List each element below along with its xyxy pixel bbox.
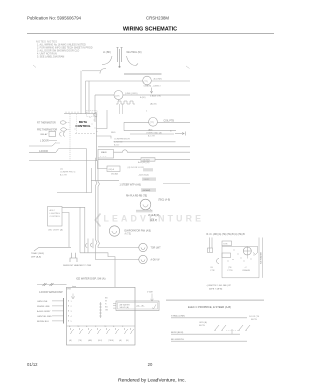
svg-text:(A): (A)	[119, 339, 122, 342]
control board top edge	[64, 113, 97, 115]
svg-text:OVERLOAD (A): OVERLOAD (A)	[146, 131, 162, 134]
evaporator fan motor	[109, 226, 119, 236]
svg-text:TOR LWT: TOR LWT	[151, 248, 162, 250]
aux motor circle 2	[139, 255, 147, 263]
left drop wire corner	[57, 168, 92, 193]
water valve sub-box inner	[118, 303, 158, 310]
svg-text:RT THERMISTOR: RT THERMISTOR	[37, 123, 56, 125]
wire left low 2	[29, 161, 107, 169]
svg-text:A-B (W) (B): A-B (W) (B)	[138, 161, 150, 164]
svg-text:A CO: A CO	[114, 143, 120, 146]
connector bar	[63, 298, 65, 324]
water valve sub-box outer	[116, 301, 159, 311]
svg-text:(W) A: (W) A	[109, 168, 115, 171]
svg-text:(A) (B): (A) (B)	[150, 103, 157, 106]
header rule	[27, 33, 274, 35]
svg-text:-(A)- -(B)-: -(A)- -(B)-	[136, 304, 145, 307]
ice maker right bracket	[258, 238, 260, 278]
harness connector rows	[37, 301, 52, 323]
connector circle on neutral bus	[114, 91, 123, 100]
internal terminal strip	[99, 302, 101, 318]
svg-text:CTR: CTR	[210, 270, 215, 272]
arrow down from bus L1	[150, 88, 152, 94]
svg-text:RELAY: RELAY	[41, 133, 49, 136]
svg-text:A (TE): A (TE)	[125, 233, 132, 236]
svg-text:DEF (A-B): DEF (A-B)	[31, 255, 41, 258]
svg-text:(B): (B)	[126, 340, 129, 342]
grey part badge 2	[142, 177, 156, 180]
svg-text:/ (MAIN) - (LINE) /: / (MAIN) - (LINE) /	[143, 85, 161, 88]
defrost connector bracket	[70, 253, 77, 262]
svg-text:STEAL (LINE): STEAL (LINE)	[171, 314, 185, 317]
svg-text:ICE MAKER: ICE MAKER	[259, 252, 262, 264]
svg-text:(LF): (LF)	[115, 95, 119, 97]
svg-text:5. SEE LABEL DIAGRAM: 5. SEE LABEL DIAGRAM	[37, 56, 64, 59]
svg-text:COMPR PRO 4: COMPR PRO 4	[60, 172, 76, 174]
power cord lower left hook	[100, 69, 106, 74]
svg-text:BK/TE: BK/TE	[199, 325, 206, 327]
switch diagonal	[56, 149, 59, 153]
wire from lighting box upper	[62, 207, 85, 253]
svg-text:GRN/YEL RED: GRN/YEL RED	[37, 316, 52, 318]
tick mark right	[186, 66, 190, 69]
svg-text:AB WATER: AB WATER	[120, 303, 131, 306]
svg-text:RED: RED	[111, 132, 116, 134]
switch top labels	[69, 325, 124, 328]
defrost drop wires with curls	[88, 239, 93, 253]
compressor run wire	[124, 121, 190, 123]
svg-text:BK/W (BLW): BK/W (BLW)	[171, 332, 184, 334]
svg-text:GRN: GRN	[67, 288, 72, 290]
svg-text:CRAMB: CRAMB	[242, 269, 250, 272]
control pin dots	[75, 117, 98, 134]
svg-text:A (LINE): A (LINE)	[154, 77, 163, 80]
triac wire	[34, 247, 71, 251]
module left edge	[221, 246, 223, 278]
noise filter element square wave	[116, 101, 135, 104]
svg-text:(ADAM): (ADAM)	[143, 189, 151, 192]
svg-text:BK/TE: BK/TE	[251, 319, 258, 321]
svg-text:(ADAM): (ADAM)	[143, 159, 151, 162]
control board right edge	[96, 114, 98, 161]
coil drop wire	[118, 100, 120, 102]
svg-text:COMPRESSOR: COMPRESSOR	[114, 138, 130, 140]
wire row 141	[114, 141, 176, 143]
svg-text:01/12: 01/12	[27, 362, 38, 367]
drop wire x80	[79, 207, 81, 253]
svg-text:(TE: (TE	[228, 267, 232, 269]
svg-text:LIGHTING: LIGHTING	[50, 213, 61, 215]
control board inner dashed edge	[76, 114, 78, 133]
lighting control box	[48, 207, 63, 227]
svg-text:~C: ~C	[244, 267, 247, 269]
door switches	[215, 325, 250, 330]
thermo contact C	[217, 259, 220, 264]
svg-text:COIL PTB: COIL PTB	[164, 120, 175, 122]
middle drop wire pair	[96, 158, 139, 260]
svg-text:A DOOR WATER DISP: A DOOR WATER DISP	[39, 291, 63, 294]
wire row 180	[91, 180, 119, 182]
sub-box left lip pins	[113, 303, 116, 308]
control board left edge (dashed)	[69, 114, 71, 161]
svg-text:GRN LINE: GRN LINE	[37, 301, 48, 303]
watermark chevron logo	[95, 214, 100, 227]
valve pin check	[152, 305, 156, 310]
svg-text:A B C: A B C	[50, 209, 56, 212]
svg-text:CONTROL: CONTROL	[50, 216, 61, 218]
svg-text:STR: STR	[223, 244, 228, 246]
contact dots	[228, 250, 255, 262]
svg-text:(W) AB: (W) AB	[111, 173, 118, 176]
svg-text:CRSH238M: CRSH238M	[146, 16, 169, 21]
svg-text:VALVE (A): VALVE (A)	[120, 306, 130, 309]
svg-text:&B*B *) (B*B): &B*B *) (B*B)	[209, 289, 223, 291]
svg-text:+ - + +: + - + +	[100, 156, 107, 158]
svg-text:RH-PLA RE-RB (TE): RH-PLA RE-RB (TE)	[126, 194, 147, 197]
power plug prongs	[117, 48, 123, 67]
power plug center pin dot	[119, 66, 121, 68]
ice maker bottom edge	[222, 277, 259, 279]
capacitor plates	[136, 209, 153, 211]
svg-text:(TT): (TT)	[144, 81, 148, 83]
connector pins	[68, 300, 69, 321]
holding switch box	[222, 253, 231, 258]
svg-text:ELEC C PROPRICE, E STEER (A-B): ELEC C PROPRICE, E STEER (A-B)	[188, 305, 231, 309]
svg-text:A C TE: A C TE	[148, 134, 155, 137]
grey cord label strip	[124, 73, 162, 75]
svg-text:NEUTRAL (W): NEUTRAL (W)	[127, 51, 142, 54]
compressor feed corner	[97, 110, 112, 139]
connector circle on bus L1	[143, 76, 152, 85]
svg-text:4 A&B (TE): 4 A&B (TE)	[150, 95, 161, 98]
run capacitor circle	[149, 117, 158, 126]
ice maker module box STR	[222, 241, 232, 246]
svg-text:A (W): A (W)	[140, 96, 146, 99]
svg-text:(A): (A)	[69, 339, 72, 342]
main pwb box	[98, 150, 114, 159]
rail 4	[171, 340, 247, 342]
svg-text:Publication No: 5995606794: Publication No: 5995606794	[27, 16, 82, 21]
svg-text:4 WAY: 4 WAY	[147, 291, 154, 294]
wire left upper switch	[29, 145, 52, 147]
compressor wire pair	[124, 130, 176, 132]
filter drops into control	[119, 104, 121, 114]
svg-text:A C TE: A C TE	[60, 174, 67, 177]
main bus neutral wire	[95, 94, 190, 96]
rail 3	[171, 333, 240, 335]
svg-text:(1): (1)	[60, 169, 63, 171]
control top dotted connector box	[87, 111, 98, 117]
grey part badge 1	[143, 168, 153, 171]
rail 2	[171, 317, 247, 319]
wire to control	[59, 148, 87, 150]
svg-text:L DOOR: L DOOR	[40, 140, 49, 142]
switch labels	[69, 339, 129, 342]
svg-text:Rendered by LeadVenture, Inc.: Rendered by LeadVenture, Inc.	[118, 378, 186, 384]
svg-text:BK GRN/YEL: BK GRN/YEL	[171, 339, 185, 341]
relay coil curls	[60, 132, 65, 136]
svg-text:- (JRM TB 2 J&J JEE (CP: - (JRM TB 2 J&J JEE (CP	[206, 285, 232, 287]
ice maker top wire	[222, 245, 258, 247]
svg-text:ICE WATER DISP, SHI (A): ICE WATER DISP, SHI (A)	[76, 278, 106, 281]
tick mark left	[33, 65, 36, 68]
door ladder top rail	[166, 299, 264, 301]
svg-text:LT (4 B)(R): LT (4 B)(R)	[148, 215, 160, 217]
control board top edge pin ticks	[66, 112, 92, 114]
svg-text:WH/BK LINE: WH/BK LINE	[37, 306, 50, 308]
riser wires into control	[81, 71, 95, 122]
svg-text:24032: 24032	[144, 179, 151, 181]
svg-text:(TBC) (A-B): (TBC) (A-B)	[158, 198, 170, 201]
svg-text:A-DIV W: A-DIV W	[151, 259, 161, 262]
door harness wire with breaks	[37, 283, 67, 286]
svg-text:DOOR (TE: DOOR (TE	[249, 316, 260, 318]
defrost bus wire	[80, 253, 115, 287]
branch corner	[123, 122, 125, 130]
svg-text:TRIAC (DEF): TRIAC (DEF)	[31, 252, 44, 255]
main bus L1 wire	[86, 80, 191, 82]
svg-text:GRN (A): GRN (A)	[199, 321, 207, 324]
wire row 183 right	[163, 183, 190, 185]
svg-text:(AB): (AB)	[148, 128, 153, 131]
pin label column	[105, 297, 109, 311]
inline small box on wire 168	[107, 166, 120, 172]
svg-text:1 STEER WTF-(A-B): 1 STEER WTF-(A-B)	[120, 184, 142, 187]
svg-text:(LINE (OND): (LINE (OND)	[125, 93, 138, 95]
ice maker left risers	[210, 238, 213, 253]
wire row 159	[98, 158, 191, 160]
svg-text:L1 (BK): L1 (BK)	[103, 52, 111, 54]
internal divider	[67, 325, 136, 327]
wire row 152 with jump	[114, 150, 191, 152]
svg-text:EVAPORATOR FAN (A B): EVAPORATOR FAN (A B)	[125, 229, 152, 232]
svg-text:WIRING SCHEMATIC: WIRING SCHEMATIC	[123, 27, 177, 33]
wire row 146	[98, 146, 190, 148]
svg-text:(AB): (AB)	[88, 339, 92, 342]
svg-text:BK/WH BLK: BK/WH BLK	[37, 321, 49, 323]
drop wire from door switch	[86, 149, 88, 193]
arrow connector right	[175, 132, 186, 136]
svg-text:W: W	[105, 300, 107, 302]
svg-text:20: 20	[148, 362, 153, 367]
svg-text:R.I.C. (AB) (A) (TE) (TE) B (A: R.I.C. (AB) (A) (TE) (TE) B (A) (TE) B	[207, 233, 246, 236]
svg-text:(TE/B): (TE/B)	[108, 340, 114, 342]
aux motor circle 1	[139, 243, 147, 251]
power cord right strain curve	[127, 56, 139, 66]
dispenser housing box	[67, 287, 136, 345]
ice maker motor	[243, 247, 251, 255]
svg-text:(4 B P): (4 B P)	[150, 220, 157, 222]
svg-text:(TT): (TT)	[150, 122, 154, 124]
power cord left strain curve	[102, 56, 112, 65]
wire left low 1	[29, 151, 56, 153]
svg-text:(BU): (BU)	[98, 340, 102, 342]
inline component box on wire 159	[141, 158, 155, 162]
svg-text:- A-B (B-A): - A-B (B-A)	[138, 174, 149, 177]
connector curls	[86, 244, 88, 248]
svg-text:CTTE: CTTE	[227, 270, 233, 272]
svg-text:DEFROST HEATER TO TER: DEFROST HEATER TO TER	[63, 264, 92, 267]
wire from lighting box lower	[62, 213, 69, 248]
mold heater tap	[253, 253, 258, 255]
svg-text:CONTROL: CONTROL	[75, 124, 90, 128]
svg-text:A-B-R GRN/Y: A-B-R GRN/Y	[37, 310, 51, 313]
connector bracket on riser	[94, 113, 97, 117]
ground arrow	[71, 294, 75, 300]
svg-text:(4) DOOR LOCK: (4) DOOR LOCK	[128, 167, 145, 169]
wire L1 drop to bus	[82, 70, 100, 72]
grey badge adam	[141, 188, 156, 192]
svg-text:MAIN: MAIN	[101, 151, 107, 154]
dispenser switch row	[71, 328, 135, 334]
svg-text:(TE): (TE)	[78, 340, 82, 342]
svg-text:LED LIGHT (A): LED LIGHT (A)	[48, 229, 63, 232]
condenser fan motor	[140, 199, 151, 210]
thermostat box	[208, 248, 213, 253]
switch diagonal upper	[52, 142, 56, 146]
